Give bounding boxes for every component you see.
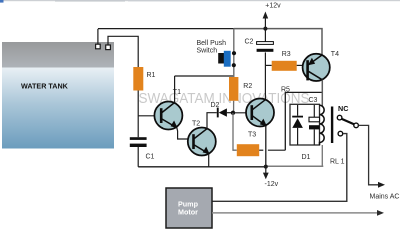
wire T2 emitter to -12v rail [208, 154, 210, 167]
node junction at +12v rail [263, 27, 267, 31]
wire R2 bottom to node [233, 101, 235, 113]
svg-text:T4: T4 [331, 51, 339, 58]
wire R1 bottom to C1 [137, 91, 139, 138]
svg-text:C3: C3 [309, 97, 318, 104]
probe sensor right [106, 45, 111, 50]
diode D2 [211, 102, 227, 118]
wire pump motor to mains arrow [212, 212, 379, 214]
svg-text:T3: T3 [248, 132, 256, 139]
-12v supply arrow [263, 167, 279, 188]
resistor R1 [133, 67, 143, 91]
wire T2 collector riser to D2 [207, 113, 217, 129]
svg-text:D1: D1 [302, 154, 311, 161]
resistor R2 [229, 77, 238, 101]
svg-text:+12v: +12v [265, 3, 281, 10]
wire common contact to mains [359, 125, 381, 184]
svg-text:R5: R5 [281, 87, 290, 94]
wire R3 to T4 base [297, 64, 308, 66]
wire D2 anode to node [227, 112, 233, 114]
capacitor C1 [130, 137, 155, 160]
+12v supply arrow [263, 3, 282, 29]
svg-text:Motor: Motor [178, 208, 198, 217]
wire relay bottom to -12v rail [321, 145, 323, 166]
svg-text:T2: T2 [192, 121, 200, 128]
node junction D2/R2/T3 base [231, 111, 235, 115]
svg-text:D2: D2 [211, 102, 220, 109]
transistor T2 [188, 121, 216, 156]
wire T1 collector to R2 top [175, 75, 234, 77]
relay RL1 box [290, 104, 320, 145]
wire T1 emitter to T2 base [177, 128, 194, 139]
transistor T4 (PNP) [303, 51, 339, 81]
svg-text:Mains AC: Mains AC [370, 194, 400, 201]
bell push switch [197, 29, 237, 77]
svg-text:C2: C2 [245, 39, 254, 46]
wire T3 emitter to -12v rail [265, 126, 267, 167]
diode D1 [292, 105, 310, 161]
relay coil [320, 105, 325, 145]
wire R5 riser to top [285, 92, 322, 150]
wire -12v rail gray segment [266, 165, 324, 167]
wire NO contact to pump motor [212, 134, 347, 202]
node junction at -12v rail [264, 165, 268, 169]
svg-text:-12v: -12v [265, 181, 279, 188]
transistor T1 [154, 89, 182, 130]
svg-text:C1: C1 [146, 154, 155, 161]
wire probe left riser [97, 29, 99, 44]
wire +12v rail left segment [98, 28, 234, 30]
relay contact NC [337, 104, 358, 136]
wire probe right riser [108, 36, 138, 67]
capacitor C3 [309, 97, 320, 145]
wire +12v rail right segment [234, 29, 322, 55]
wire T4 collector to relay coil [321, 80, 323, 106]
svg-text:Bell Push: Bell Push [197, 40, 227, 47]
svg-text:R1: R1 [147, 72, 156, 79]
capacitor C2 [245, 29, 274, 52]
svg-text:Switch: Switch [197, 48, 218, 55]
wire C2 bottom to T3 collector [264, 52, 266, 99]
wire T1 collector riser [174, 76, 176, 103]
resistor R3 [272, 61, 297, 71]
wire branch to R3 [265, 64, 271, 66]
svg-text:WATER TANK: WATER TANK [21, 82, 69, 91]
wire T1 base [138, 115, 156, 117]
pump motor [166, 188, 212, 228]
wire C1 bottom [137, 147, 139, 167]
wire T3 base [233, 112, 252, 114]
transistor T3 [246, 99, 274, 139]
probe sensor left [96, 44, 101, 49]
svg-text:NC: NC [338, 104, 348, 113]
wire R5 right with hop over emitter line [259, 149, 263, 151]
wire -12v rail black segment [138, 166, 266, 168]
wire node down to R5 [233, 113, 237, 150]
resistor R5 [237, 144, 259, 156]
svg-text:R2: R2 [243, 83, 252, 90]
water tank [2, 42, 114, 149]
svg-text:R3: R3 [282, 51, 291, 58]
relay core bar [331, 107, 333, 144]
svg-text:RL 1: RL 1 [330, 159, 345, 166]
